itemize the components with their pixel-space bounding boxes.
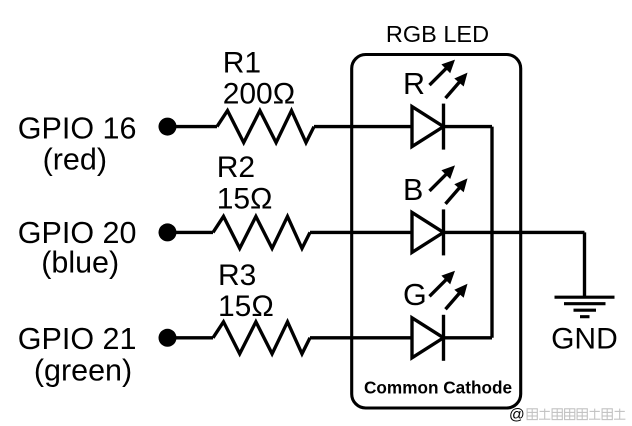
svg-text:(red): (red) <box>43 142 107 176</box>
svg-text:GPIO 21: GPIO 21 <box>18 322 137 356</box>
svg-text:R1: R1 <box>223 46 261 79</box>
svg-text:(green): (green) <box>34 354 132 388</box>
svg-text:GPIO 16: GPIO 16 <box>18 112 137 146</box>
svg-text:@: @ <box>509 407 525 424</box>
svg-text:B: B <box>403 173 423 207</box>
svg-text:15Ω: 15Ω <box>218 290 274 323</box>
svg-text:Common Cathode: Common Cathode <box>364 377 512 397</box>
svg-text:G: G <box>403 278 427 312</box>
svg-text:RGB LED: RGB LED <box>386 21 489 47</box>
svg-text:15Ω: 15Ω <box>217 182 273 215</box>
svg-text:(blue): (blue) <box>41 246 119 280</box>
svg-text:200Ω: 200Ω <box>223 77 295 110</box>
svg-text:R3: R3 <box>218 259 256 292</box>
svg-text:R2: R2 <box>217 151 255 184</box>
svg-text:R: R <box>403 67 425 101</box>
svg-text:GND: GND <box>551 322 618 355</box>
